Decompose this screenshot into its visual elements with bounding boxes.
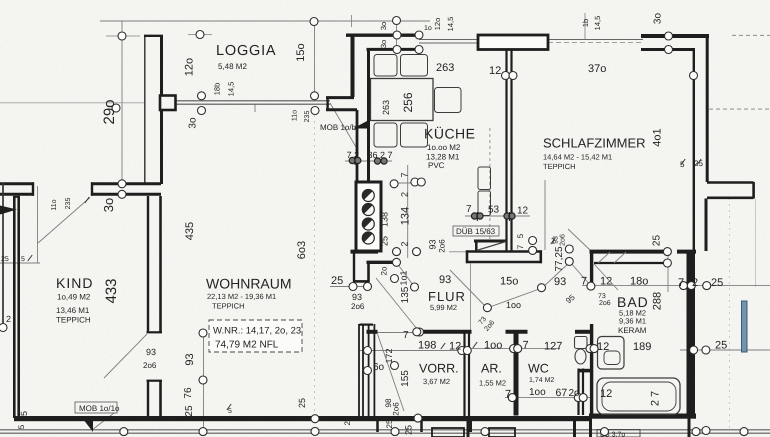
svg-text:1,55 M2: 1,55 M2 <box>479 379 506 388</box>
svg-text:4o1: 4o1 <box>652 128 664 146</box>
svg-text:FLUR: FLUR <box>428 289 466 304</box>
svg-text:5,48 M2: 5,48 M2 <box>218 62 247 71</box>
svg-text:25: 25 <box>380 236 390 246</box>
svg-text:67: 67 <box>556 387 568 399</box>
svg-text:7: 7 <box>466 204 472 215</box>
svg-text:93: 93 <box>554 276 566 288</box>
svg-text:PVC: PVC <box>428 161 445 170</box>
svg-text:W.NR.: 14,17, 2o, 23: W.NR.: 14,17, 2o, 23 <box>213 326 301 337</box>
svg-text:198: 198 <box>418 340 436 352</box>
svg-text:7: 7 <box>678 277 684 289</box>
svg-text:2o: 2o <box>569 388 581 399</box>
svg-text:12: 12 <box>597 341 609 353</box>
svg-text:14,64 M2 - 15,42 M1: 14,64 M2 - 15,42 M1 <box>543 153 612 162</box>
svg-text:1oo: 1oo <box>506 300 521 310</box>
svg-text:18o: 18o <box>630 276 648 288</box>
svg-text:11o: 11o <box>292 110 299 121</box>
svg-text:MOB 1o/1o: MOB 1o/1o <box>79 404 120 413</box>
svg-text:3o: 3o <box>653 13 664 25</box>
svg-text:25: 25 <box>343 416 352 425</box>
svg-text:11o: 11o <box>51 199 58 210</box>
svg-text:263: 263 <box>436 62 454 74</box>
svg-text:7 2: 7 2 <box>347 150 360 160</box>
svg-text:WOHNRAUM: WOHNRAUM <box>206 276 292 292</box>
svg-text:2o6: 2o6 <box>392 402 401 416</box>
svg-text:135: 135 <box>400 286 411 303</box>
svg-text:15o: 15o <box>295 43 307 61</box>
svg-text:134: 134 <box>400 207 412 225</box>
svg-text:2: 2 <box>400 241 410 246</box>
svg-text:12: 12 <box>600 388 612 400</box>
svg-text:15o: 15o <box>500 276 518 288</box>
svg-text:2: 2 <box>692 277 698 289</box>
svg-text:433: 433 <box>103 278 120 303</box>
svg-text:25: 25 <box>711 277 723 289</box>
svg-text:1o.oo M2: 1o.oo M2 <box>427 143 461 152</box>
svg-text:2: 2 <box>400 192 410 197</box>
svg-text:25: 25 <box>331 275 343 287</box>
svg-text:KÜCHE: KÜCHE <box>424 126 476 142</box>
svg-text:25: 25 <box>694 159 703 168</box>
svg-text:36 2 7: 36 2 7 <box>368 150 393 160</box>
svg-text:14,5: 14,5 <box>593 16 602 31</box>
svg-text:25: 25 <box>715 340 727 352</box>
svg-text:5: 5 <box>228 408 232 415</box>
svg-text:13,46 M1: 13,46 M1 <box>56 306 90 315</box>
svg-text:2o6: 2o6 <box>143 361 157 370</box>
svg-text:18b: 18b <box>213 83 222 96</box>
svg-text:7: 7 <box>581 276 587 288</box>
svg-text:155: 155 <box>400 370 411 387</box>
svg-text:7: 7 <box>523 340 529 352</box>
svg-text:9,36 M1: 9,36 M1 <box>619 317 646 326</box>
svg-text:93: 93 <box>352 292 362 302</box>
svg-text:25: 25 <box>297 398 307 408</box>
svg-text:235: 235 <box>65 198 72 210</box>
svg-text:435: 435 <box>184 222 196 240</box>
svg-text:12: 12 <box>449 341 461 353</box>
svg-text:3o: 3o <box>379 40 388 48</box>
svg-text:1o: 1o <box>424 25 432 32</box>
svg-text:MOB 1o/b: MOB 1o/b <box>320 123 357 132</box>
svg-text:263: 263 <box>381 100 391 115</box>
svg-text:93: 93 <box>553 236 560 244</box>
svg-text:6o3: 6o3 <box>296 241 308 259</box>
svg-text:256: 256 <box>401 92 415 112</box>
svg-text:2 7: 2 7 <box>650 391 662 406</box>
svg-text:LOGGIA: LOGGIA <box>216 43 276 59</box>
svg-text:7: 7 <box>403 330 409 341</box>
svg-text:2o6: 2o6 <box>599 300 611 307</box>
svg-text:1b: 1b <box>581 19 590 27</box>
svg-text:288: 288 <box>652 292 664 310</box>
svg-text:3,67 M2: 3,67 M2 <box>423 377 450 386</box>
svg-text:93: 93 <box>439 274 451 286</box>
svg-text:172: 172 <box>384 348 394 363</box>
svg-text:93: 93 <box>184 353 196 365</box>
svg-text:1oo: 1oo <box>484 340 502 352</box>
svg-text:22,13 M2 - 19,36 M1: 22,13 M2 - 19,36 M1 <box>207 292 276 301</box>
svg-text:73: 73 <box>598 293 606 300</box>
svg-text:7: 7 <box>505 389 511 401</box>
svg-text:TEPPICH: TEPPICH <box>212 302 245 311</box>
svg-text:53: 53 <box>488 205 500 216</box>
svg-text:5: 5 <box>21 256 25 263</box>
svg-text:25: 25 <box>652 235 663 247</box>
svg-text:3o: 3o <box>101 198 116 212</box>
svg-text:74,79 M2 NFL: 74,79 M2 NFL <box>215 340 279 351</box>
svg-text:7: 7 <box>400 172 410 177</box>
svg-text:AR.: AR. <box>481 362 502 376</box>
svg-text:127: 127 <box>544 341 562 353</box>
svg-text:189: 189 <box>633 341 651 353</box>
svg-text:2o: 2o <box>380 266 389 275</box>
svg-text:1o,49 M2: 1o,49 M2 <box>57 293 91 302</box>
svg-text:93: 93 <box>428 239 438 249</box>
svg-text:TEPPICH: TEPPICH <box>56 316 91 325</box>
svg-text:76: 76 <box>183 387 194 399</box>
svg-text:5: 5 <box>17 424 26 429</box>
svg-text:12: 12 <box>517 206 529 217</box>
svg-text:SCHLAFZIMMER: SCHLAFZIMMER <box>543 136 646 151</box>
svg-text:12: 12 <box>600 276 612 288</box>
svg-text:1oo: 1oo <box>529 387 546 398</box>
svg-text:93: 93 <box>146 347 156 357</box>
svg-text:235: 235 <box>304 111 311 123</box>
svg-text:3o: 3o <box>379 22 388 30</box>
svg-text:DÜB 15/63: DÜB 15/63 <box>456 227 496 236</box>
svg-text:1,74 M2: 1,74 M2 <box>529 377 554 384</box>
svg-text:77,25: 77,25 <box>554 246 565 271</box>
svg-text:TEPPICH: TEPPICH <box>543 162 576 171</box>
svg-text:KERAM: KERAM <box>618 326 647 335</box>
svg-text:7: 7 <box>516 244 525 249</box>
svg-text:25: 25 <box>404 425 414 435</box>
svg-text:14,5: 14,5 <box>227 82 236 97</box>
svg-text:37o: 37o <box>588 63 606 75</box>
svg-text:25: 25 <box>184 405 195 417</box>
svg-text:KIND: KIND <box>56 275 93 291</box>
svg-text:5,99 M2: 5,99 M2 <box>430 303 457 312</box>
svg-text:14,5: 14,5 <box>446 17 455 32</box>
svg-text:25: 25 <box>385 419 394 428</box>
svg-text:12o: 12o <box>184 58 196 76</box>
svg-text:3o: 3o <box>188 117 199 129</box>
svg-text:6o: 6o <box>373 362 385 373</box>
svg-text:2o6: 2o6 <box>560 234 567 246</box>
svg-text:25: 25 <box>19 411 29 421</box>
svg-text:5: 5 <box>516 233 525 238</box>
svg-text:12: 12 <box>489 65 501 77</box>
svg-text:VORR.: VORR. <box>419 362 459 376</box>
svg-text:25: 25 <box>1 256 9 263</box>
svg-text:2: 2 <box>6 314 11 324</box>
svg-text:29o: 29o <box>101 99 118 124</box>
svg-text:2o6: 2o6 <box>438 239 447 253</box>
svg-text:WC: WC <box>528 362 549 376</box>
svg-text:1o1: 1o1 <box>399 270 409 285</box>
svg-text:2o6: 2o6 <box>351 302 365 311</box>
svg-text:138: 138 <box>380 212 390 227</box>
svg-text:12o: 12o <box>433 18 442 31</box>
